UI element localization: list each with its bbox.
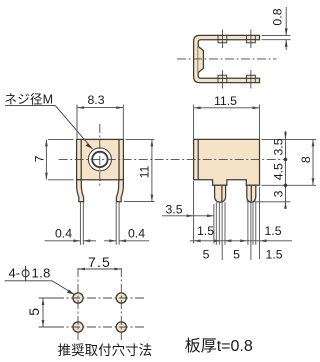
dimension 0.4 left pin width [45, 227, 97, 243]
mounting hole bottom-left [73, 322, 83, 332]
mounting hole top-right [116, 293, 126, 303]
dimension 3.5 (side view bottom-left) [162, 203, 214, 218]
svg-text:8: 8 [299, 156, 313, 163]
side view body with bottom tabs [194, 139, 260, 185]
side view left pin pair [216, 202, 225, 245]
mounting hole pattern centerlines [55, 268, 145, 340]
svg-text:5: 5 [26, 308, 42, 316]
mounting hole top-left [73, 293, 83, 303]
svg-text:11: 11 [137, 165, 151, 178]
front view screw hole circle [88, 148, 111, 171]
label 4-phi1.8 with leader arrow [5, 266, 75, 295]
top view pin tab lower-right [247, 70, 256, 89]
caption 推奨取付穴寸法 [58, 343, 153, 358]
svg-text:7.5: 7.5 [88, 254, 111, 270]
top view centerline [177, 58, 277, 60]
svg-text:推奨取付穴寸法: 推奨取付穴寸法 [58, 343, 153, 358]
mounting hole bottom-right [116, 322, 126, 332]
dimension 0.4 right pin width [104, 227, 149, 243]
top view pin tab upper-left [218, 30, 227, 49]
svg-text:1.5: 1.5 [197, 224, 214, 238]
side view left pin shoulder bullet [215, 185, 226, 202]
side view bottom extension lines [194, 181, 260, 260]
dimension 8 (side height) [299, 139, 314, 185]
top view U-clip body [194, 35, 260, 82]
dimension line 5 5 1.5 with 1.5 1.5 labels [190, 224, 292, 262]
svg-text:7: 7 [33, 155, 47, 162]
svg-text:11.5: 11.5 [214, 94, 237, 108]
svg-text:板厚t=0.8: 板厚t=0.8 [185, 337, 253, 355]
dimension 7 (front height) [33, 139, 74, 179]
side view right pin shoulder bullet [247, 185, 256, 202]
svg-text:3: 3 [272, 190, 286, 197]
front view left pin [80, 202, 83, 245]
dimension 5 (hole pitch vertical) [26, 298, 58, 327]
dimension 0.8 (top view sheet thickness) [262, 7, 291, 50]
dimension 3.5 / 4.5 / 3 line (right of side view) [272, 131, 288, 209]
svg-text:4.5: 4.5 [272, 163, 286, 180]
dimension 11 (front overall height) [124, 139, 155, 201]
svg-text:1.8: 1.8 [32, 266, 51, 281]
label ネジ径M with leader [5, 93, 93, 150]
caption 板厚t=0.8 [185, 337, 253, 355]
svg-text:8.3: 8.3 [87, 93, 104, 107]
dimension 11.5 (side width) [194, 94, 260, 139]
top view hole boss bump on web [198, 46, 203, 72]
svg-text:0.4: 0.4 [128, 227, 145, 241]
front view vertical centerline [99, 124, 101, 187]
right side extension lines [247, 139, 317, 201]
dimension 7.5 (hole pitch horizontal) [78, 254, 121, 271]
side view right pin pair [248, 202, 256, 245]
dimension 8.3 (front width) [77, 93, 123, 139]
svg-text:1.5: 1.5 [265, 248, 282, 262]
top view pin tab lower-left [218, 70, 227, 89]
front view right leg shoulder [116, 180, 123, 202]
top view pin tab upper-right [247, 30, 256, 49]
svg-text:5: 5 [203, 248, 210, 262]
svg-text:0.4: 0.4 [55, 227, 72, 241]
svg-text:4-: 4- [9, 266, 21, 281]
svg-text:3.5: 3.5 [165, 203, 182, 217]
svg-text:1.5: 1.5 [264, 224, 281, 238]
front view right pin [116, 202, 119, 245]
shared horizontal centerline through front and side views [59, 158, 286, 160]
front view left leg shoulder [77, 180, 84, 202]
svg-text:3.5: 3.5 [272, 138, 286, 155]
svg-text:0.8: 0.8 [271, 8, 285, 25]
front view body [77, 139, 124, 179]
svg-text:5: 5 [233, 248, 240, 262]
svg-text:ネジ径M: ネジ径M [5, 93, 54, 107]
